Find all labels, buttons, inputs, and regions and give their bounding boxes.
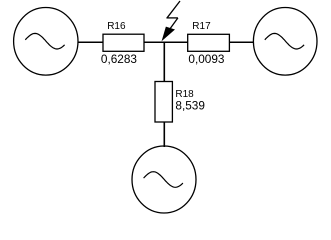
fault lightning arrow at node A — [163, 1, 181, 40]
resistor R16 — [103, 34, 144, 51]
resistor R18 — [155, 82, 172, 123]
AC source G2 (top-right) — [253, 8, 317, 76]
node A: vertical wire from bus down to R18 — [163, 42, 165, 82]
AC source G3 (bottom) — [132, 146, 196, 213]
wire from G1 to R16 — [78, 41, 104, 43]
wire from R17 to G2 — [229, 41, 254, 43]
svg-text:0,0093: 0,0093 — [188, 52, 225, 66]
svg-text:8,539: 8,539 — [175, 99, 205, 113]
svg-text:R16: R16 — [107, 21, 126, 32]
svg-text:R17: R17 — [192, 21, 211, 32]
wire from R18 to G3 — [163, 122, 165, 147]
svg-text:0,6283: 0,6283 — [101, 52, 138, 66]
wire from R16 to node A and on to R17 — [144, 41, 188, 43]
AC source G1 (top-left) — [14, 8, 78, 76]
resistor R17 — [188, 34, 230, 51]
